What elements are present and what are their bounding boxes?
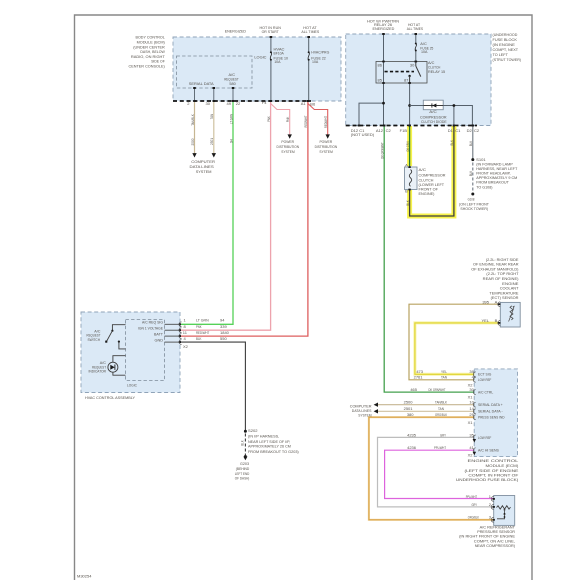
svg-text:ENERGIZED: ENERGIZED bbox=[225, 29, 246, 34]
svg-text:30: 30 bbox=[206, 101, 211, 106]
wire: HVAC internal stubs logic box to connector pins bbox=[165, 324, 181, 342]
sensor B2: A/C refrigerant pressure sensor box bbox=[494, 496, 515, 526]
pin squares on fuse block top edge bbox=[382, 33, 417, 35]
svg-text:(NOT USED): (NOT USED) bbox=[351, 132, 375, 137]
ground G203 symbol bbox=[243, 455, 247, 460]
relay K1: A/C clutch relay box bbox=[376, 62, 427, 84]
label: ENERGIZED bbox=[225, 29, 246, 34]
svg-text:PRESS SENS IND: PRESS SENS IND bbox=[478, 415, 505, 420]
diode D1 symbol bbox=[423, 103, 443, 107]
svg-text:GND: GND bbox=[155, 337, 164, 342]
svg-text:SERIAL DATA: SERIAL DATA bbox=[189, 81, 214, 86]
svg-text:35: 35 bbox=[469, 432, 474, 437]
ECT thermistor symbol bbox=[509, 306, 515, 322]
label: LOGIC (HVAC) bbox=[127, 383, 137, 388]
terminal wedges at ECM pins 35 and 41 bbox=[473, 439, 476, 455]
HVAC internal logic dashed box bbox=[126, 320, 165, 381]
svg-text:LOGIC: LOGIC bbox=[127, 383, 137, 388]
svg-text:LOW REF: LOW REF bbox=[478, 377, 492, 382]
svg-text:YEL: YEL bbox=[441, 369, 448, 374]
wire: HOT AT ALL TIMES feed through A/C fuse to relay pin 30 bbox=[415, 34, 417, 62]
svg-text:BLK: BLK bbox=[468, 171, 473, 177]
wire: BLK dashed S101 to G108 bbox=[472, 163, 474, 192]
svg-text:2501: 2501 bbox=[209, 137, 214, 145]
module U2: Engine Control Module (ECM) dashed box bbox=[474, 369, 517, 457]
svg-text:CENTER CONSOLE): CENTER CONSOLE) bbox=[129, 63, 166, 68]
label: A/C REQUEST 580 (BCM) bbox=[224, 72, 239, 86]
svg-text:S202: S202 bbox=[248, 428, 258, 433]
label: fuse F3 A/C FUSE 25 10A bbox=[420, 41, 434, 54]
label: fuse F2 HVAC/PRG FUSE 22 10A bbox=[311, 50, 329, 64]
svg-text:ALL TIMES: ALL TIMES bbox=[301, 29, 319, 34]
label: computer data lines system (ECM side) bbox=[350, 404, 372, 418]
pin squares on BCM logic box bottom bbox=[193, 87, 234, 89]
wire row labels: pressure sensor pins bbox=[466, 494, 492, 520]
pin names: HVAC right edge bbox=[138, 320, 163, 343]
svg-text:BLK: BLK bbox=[240, 440, 245, 446]
svg-text:SYSTEM: SYSTEM bbox=[196, 169, 212, 174]
svg-text:HVAC/PRG: HVAC/PRG bbox=[311, 50, 329, 55]
diode D1: A/C compressor clutch diode box bbox=[423, 100, 443, 110]
wire: YEL 473 ECT signal pin B to ECM pin 39 (pale casing) bbox=[415, 323, 499, 374]
label: power distribution system (PNK) bbox=[277, 139, 300, 154]
wire: TAN/BLK 2500 serial data + at ECM pin 10 bbox=[376, 404, 475, 406]
wire: BLK dashed S202 to G203 bbox=[244, 434, 246, 456]
pin names: ECM left edge bbox=[478, 372, 505, 453]
svg-text:2501: 2501 bbox=[404, 406, 414, 411]
svg-text:RED/WHT: RED/WHT bbox=[196, 330, 210, 335]
svg-text:B6: B6 bbox=[310, 101, 316, 106]
svg-text:GRY: GRY bbox=[440, 432, 446, 437]
wire: diode right to D2 pin with D1 branch bbox=[443, 104, 472, 125]
fuse F3: A/C FUSE 25 10A symbol bbox=[415, 43, 417, 52]
module FB1: Underhood Fuse Block dashed box bbox=[346, 34, 491, 126]
svg-text:PNK: PNK bbox=[285, 117, 290, 123]
svg-text:465: 465 bbox=[410, 387, 417, 392]
wire: ORG/BLK 380 pressure sensor 5v ECM pin 29 to sensor pin 3 bbox=[369, 417, 494, 520]
svg-text:OR START: OR START bbox=[262, 29, 280, 34]
pin squares on BCM bottom connector bbox=[193, 100, 309, 102]
label: HOT AT ALL TIMES (BCM) bbox=[301, 25, 319, 34]
svg-text:G108: G108 bbox=[468, 196, 475, 201]
svg-text:39: 39 bbox=[469, 369, 474, 374]
svg-text:X2: X2 bbox=[183, 344, 189, 349]
label: underhood fuse block name block bbox=[493, 32, 522, 62]
svg-text:A1: A1 bbox=[301, 101, 307, 106]
svg-text:29: 29 bbox=[469, 412, 474, 417]
svg-text:SWITCH: SWITCH bbox=[88, 337, 101, 342]
svg-text:BLK: BLK bbox=[449, 140, 454, 146]
wire: pin87 junction to diode left bbox=[410, 105, 424, 107]
BCM internal logic dashed box bbox=[177, 56, 253, 88]
wire: DK GRN/WHT 465 A/C request from fuse block A12 to ECM pin 30 bbox=[384, 126, 474, 393]
wire: BLK D2 to S101 splice bbox=[472, 126, 474, 160]
svg-text:ECT SIG: ECT SIG bbox=[478, 372, 491, 377]
wire: PNK branch to power distribution arrow bbox=[271, 104, 290, 135]
label: fuse F1 HVAC B FUSE 10A bbox=[274, 46, 289, 64]
arrow: serial data - to computer data lines (left) bbox=[374, 409, 378, 413]
arrow: power distribution (down) from RED/WHT bbox=[326, 134, 330, 138]
svg-text:94: 94 bbox=[228, 138, 233, 143]
svg-text:94: 94 bbox=[220, 318, 225, 323]
svg-text:30: 30 bbox=[410, 62, 415, 67]
svg-text:GRY: GRY bbox=[472, 502, 478, 507]
svg-text:TAN: TAN bbox=[438, 406, 444, 411]
svg-text:A/C: A/C bbox=[419, 167, 427, 172]
pin labels: fuse block bottom connector bbox=[351, 128, 480, 137]
component L1: A/C compressor clutch coil box bbox=[405, 167, 418, 190]
label: A/C refrigerant pressure sensor block bbox=[459, 524, 516, 548]
module U1: Body Control Module (BCM) dashed box bbox=[173, 37, 341, 101]
svg-text:C2: C2 bbox=[474, 128, 480, 133]
wire: PPL/WHT 4236 pressure signal ECM pin 41 to sensor pin 1 bbox=[385, 450, 494, 498]
svg-text:RELAY 15: RELAY 15 bbox=[428, 69, 446, 74]
svg-text:BATT: BATT bbox=[154, 331, 163, 336]
svg-text:49: 49 bbox=[227, 101, 232, 106]
svg-text:PPL/WHT: PPL/WHT bbox=[466, 494, 478, 499]
Underhood fuse block bottom connector row (heavy dashed) bbox=[346, 125, 477, 127]
arrow: computer data lines (down) from TAN/BLK bbox=[192, 153, 196, 157]
svg-text:SERIAL DATA -: SERIAL DATA - bbox=[478, 409, 503, 414]
svg-text:D2: D2 bbox=[467, 128, 473, 133]
junction at pin87/diode branch bbox=[408, 104, 411, 107]
relay coil heavy dashed line bbox=[385, 71, 415, 73]
splice S202 bbox=[244, 430, 247, 433]
svg-text:2500: 2500 bbox=[190, 138, 195, 146]
svg-text:A: A bbox=[495, 299, 498, 304]
svg-text:ENERGIZED: ENERGIZED bbox=[372, 26, 394, 31]
wire: YEL 473 ECT signal core bbox=[415, 323, 499, 374]
svg-text:87: 87 bbox=[404, 78, 409, 83]
label: ground G203 block bbox=[235, 461, 250, 481]
svg-text:D1: D1 bbox=[448, 128, 454, 133]
pin numbers: BCM bottom connector bbox=[187, 100, 316, 106]
svg-text:30: 30 bbox=[469, 387, 474, 392]
label: diode A/C COMPRESSOR CLUTCH DIODE bbox=[420, 109, 447, 124]
wire: RED/WHT 1840 battery feed BCM to HVAC pin 11 bbox=[180, 101, 308, 336]
svg-text:OF DASH): OF DASH) bbox=[235, 476, 250, 481]
svg-text:10: 10 bbox=[469, 400, 474, 405]
svg-text:10A: 10A bbox=[421, 49, 428, 54]
svg-text:LT GRN: LT GRN bbox=[196, 318, 209, 323]
label: ECT sensor name block bbox=[471, 257, 519, 300]
wire: relay pin 87 down to fuse block pin F1B bbox=[409, 83, 411, 126]
label: HVAC CONTROL ASSEMBLY bbox=[85, 395, 135, 400]
svg-text:473: 473 bbox=[416, 369, 423, 374]
svg-text:2500: 2500 bbox=[404, 400, 414, 405]
pin labels: clutch A and B bbox=[405, 162, 408, 193]
svg-text:X1: X1 bbox=[468, 420, 474, 425]
svg-text:HVAC CONTROL ASSEMBLY: HVAC CONTROL ASSEMBLY bbox=[85, 395, 135, 400]
svg-text:ALL TIMES: ALL TIMES bbox=[407, 26, 424, 31]
svg-text:FROM BREAKOUT TO G203): FROM BREAKOUT TO G203) bbox=[248, 449, 299, 454]
label: A/C request switch bbox=[87, 328, 101, 342]
ECT sensor pin arcs A and B bbox=[498, 302, 501, 326]
arrow: serial data + to computer data lines (left) bbox=[374, 403, 378, 407]
svg-text:PNK: PNK bbox=[266, 116, 271, 122]
pressure sensor internal symbol bbox=[497, 506, 511, 519]
wire: TAN/BLK 2500 serial data from BCM pin to computer data lines arrow bbox=[194, 101, 196, 154]
wire: PNK 339 ignition feed BCM to HVAC pin 8 bbox=[180, 101, 271, 330]
svg-text:10A: 10A bbox=[274, 59, 281, 64]
svg-text:LOW REF: LOW REF bbox=[478, 435, 492, 440]
wire: branch to pin D12 (not used) bbox=[359, 103, 384, 125]
svg-text:RED/WHT: RED/WHT bbox=[323, 116, 328, 128]
svg-text:86: 86 bbox=[378, 62, 383, 67]
svg-text:SYSTEM: SYSTEM bbox=[358, 412, 371, 417]
svg-text:85: 85 bbox=[378, 78, 383, 83]
wire: BLK 550 HVAC pin 4 ground to S202 bbox=[180, 342, 245, 430]
pin numbers: relay 86 30 85 87 bbox=[378, 62, 416, 82]
svg-text:380: 380 bbox=[407, 412, 414, 417]
svg-text:BLK: BLK bbox=[196, 336, 202, 341]
label: splice S202 block bbox=[248, 428, 299, 454]
svg-text:A12: A12 bbox=[376, 128, 384, 133]
svg-text:IGN 1 VOLTAGE: IGN 1 VOLTAGE bbox=[138, 326, 163, 331]
pin squares on relay box edges bbox=[382, 61, 417, 84]
svg-text:NEAR COMPRESSOR): NEAR COMPRESSOR) bbox=[475, 543, 516, 548]
svg-text:580: 580 bbox=[229, 81, 236, 86]
label: ground G108 block bbox=[459, 196, 489, 211]
svg-text:14: 14 bbox=[469, 406, 474, 411]
svg-text:F1B: F1B bbox=[400, 128, 408, 133]
HVAC connector pin arcs rows 1,8,11,4 bbox=[179, 322, 182, 345]
pressure sensor pin arcs 1,2,3 bbox=[491, 497, 495, 523]
svg-text:DK GRN/WHT: DK GRN/WHT bbox=[429, 387, 446, 392]
svg-text:A/C HI SENS: A/C HI SENS bbox=[478, 448, 499, 453]
pin labels: ECT A and B rows bbox=[481, 299, 497, 323]
label: HOT AT ALL TIMES (fuse block) bbox=[407, 22, 424, 31]
svg-text:ORG/BLK: ORG/BLK bbox=[435, 412, 447, 417]
label: HOT W/ PWRTRN RELAY 26 ENERGIZED bbox=[367, 18, 399, 31]
wire: TAN 2761 low ref ECT pin A to ECM pin 4 bbox=[409, 304, 499, 380]
svg-text:41: 41 bbox=[469, 445, 474, 450]
footer code bbox=[77, 574, 92, 579]
svg-text:X2: X2 bbox=[468, 452, 474, 457]
svg-text:395: 395 bbox=[482, 299, 489, 304]
svg-text:UNDERHOOD FUSE BLOCK): UNDERHOOD FUSE BLOCK) bbox=[456, 477, 519, 482]
svg-text:TAN: TAN bbox=[209, 114, 214, 120]
svg-text:ENGINE): ENGINE) bbox=[419, 191, 436, 196]
svg-text:4236: 4236 bbox=[407, 445, 417, 450]
svg-text:2761: 2761 bbox=[414, 375, 424, 380]
svg-text:DK GRN: DK GRN bbox=[405, 141, 410, 151]
wire: relay coil pin 86 to 85 internal bbox=[383, 62, 385, 84]
svg-text:(IN I/P HARNESS,: (IN I/P HARNESS, bbox=[248, 434, 279, 439]
svg-text:PPL/WHT: PPL/WHT bbox=[434, 445, 446, 450]
svg-text:RED/WHT: RED/WHT bbox=[303, 115, 308, 127]
arrow: power distribution (down) from PNK bbox=[288, 134, 292, 138]
label: HOT IN RUN OR START bbox=[260, 25, 281, 34]
wire: BCM internal stubs logic box to connector bbox=[195, 88, 234, 101]
wire: BLK clutch return pin B to fuse block pin D1 bbox=[410, 126, 454, 217]
svg-text:339: 339 bbox=[220, 324, 227, 329]
svg-text:DK GRN/WHT: DK GRN/WHT bbox=[380, 142, 385, 159]
svg-text:22: 22 bbox=[236, 101, 241, 106]
svg-text:F4: F4 bbox=[262, 100, 267, 105]
label: computer data lines system (BCM side) bbox=[190, 159, 216, 174]
svg-text:B: B bbox=[495, 318, 498, 323]
label: LOGIC (BCM) bbox=[254, 55, 266, 60]
svg-text:SERIAL DATA +: SERIAL DATA + bbox=[478, 402, 503, 407]
switch SW1: A/C request switch bbox=[105, 325, 125, 349]
fuse F2: HVAC/PRG FUSE 22 10A symbol bbox=[308, 51, 310, 61]
label: BCM name block bbox=[129, 35, 166, 69]
svg-text:TO G108): TO G108) bbox=[476, 185, 493, 190]
svg-text:LT GRN: LT GRN bbox=[228, 114, 233, 124]
arrow: computer data lines (down) from TAN bbox=[212, 153, 216, 157]
pin squares on BCM top edge bbox=[270, 36, 310, 38]
svg-text:C1: C1 bbox=[455, 128, 461, 133]
wire: relay pin 85 down to fuse block pin A12 bbox=[383, 83, 385, 126]
svg-text:SYSTEM: SYSTEM bbox=[281, 149, 294, 154]
svg-text:ORG/BLK: ORG/BLK bbox=[468, 515, 479, 520]
wire color labels: vertical rotated bbox=[190, 114, 473, 446]
svg-text:LOGIC: LOGIC bbox=[254, 55, 266, 60]
svg-text:550: 550 bbox=[220, 336, 227, 341]
svg-text:1840: 1840 bbox=[220, 330, 230, 335]
svg-text:A: A bbox=[405, 162, 408, 167]
ground G108 terminal dot bbox=[471, 193, 474, 196]
ECM connector pin arcs bbox=[473, 372, 475, 453]
label: power distribution system (RED/WHT) bbox=[315, 139, 338, 154]
svg-text:TAN: TAN bbox=[441, 375, 447, 380]
svg-text:BLK: BLK bbox=[405, 200, 410, 206]
label: SERIAL DATA (BCM) bbox=[189, 81, 214, 86]
junction at relay85/D12 branch bbox=[382, 102, 385, 105]
module A1: HVAC Control Assembly dashed box bbox=[81, 312, 180, 393]
wire: DK GRN clutch feed F1B to clutch pin A bbox=[409, 126, 411, 168]
wire: BCM fuse2 feed vertical (HOT AT ALL TIMES) bbox=[308, 37, 310, 101]
svg-text:TAN/BLK: TAN/BLK bbox=[190, 114, 195, 126]
sensor B1: ECT sensor box bbox=[500, 302, 520, 327]
pin squares on fuse block bottom connector bbox=[358, 125, 474, 127]
svg-text:PNK: PNK bbox=[196, 324, 202, 329]
highlight: yellow traced circuit through A/C compressor clutch bbox=[410, 126, 454, 216]
svg-text:CLUTCH DIODE: CLUTCH DIODE bbox=[421, 119, 447, 124]
wire: BCM fuse1 feed vertical (HOT IN RUN) bbox=[270, 37, 272, 101]
clutch L1 coil symbol bbox=[408, 166, 411, 190]
wire: TAN 2501 serial data from BCM pin to computer data lines arrow bbox=[213, 101, 215, 154]
label: splice S101 block bbox=[476, 157, 518, 190]
svg-text:A/C REQ SIG: A/C REQ SIG bbox=[142, 320, 163, 325]
svg-text:M30254: M30254 bbox=[77, 574, 92, 579]
indicator DS1: A/C request LED bbox=[108, 356, 126, 376]
wire: HOT W/PWRTRN feed to relay pin 86 bbox=[383, 34, 385, 62]
label: A/C request indicator bbox=[89, 360, 107, 374]
svg-text:4235: 4235 bbox=[407, 432, 417, 437]
svg-text:YEL: YEL bbox=[481, 318, 489, 323]
splice S101 bbox=[471, 158, 474, 161]
wire: RED/WHT branch to power distribution arrow bbox=[308, 104, 328, 135]
label: A/C compressor clutch block bbox=[419, 167, 446, 196]
label: relay K1 A/C CLUTCH RELAY 15 bbox=[428, 60, 446, 74]
svg-text:B: B bbox=[405, 189, 408, 194]
relay switch blade pin 30 to 87 bbox=[408, 62, 420, 84]
wire: TAN 2501 serial data - at ECM pin 14 bbox=[376, 410, 475, 412]
wire row labels: HVAC pins bbox=[183, 318, 230, 350]
svg-text:A/C CTRL: A/C CTRL bbox=[478, 390, 494, 395]
BCM bottom connector row (heavy dashed) bbox=[173, 100, 311, 102]
svg-text:TAN/BLK: TAN/BLK bbox=[435, 400, 447, 405]
wire row labels: ECM pins bbox=[404, 369, 475, 457]
svg-text:C2: C2 bbox=[386, 128, 392, 133]
svg-text:SYSTEM: SYSTEM bbox=[319, 149, 332, 154]
label: ECM name block bbox=[456, 458, 519, 482]
fuse F1: HVAC B FUSE 10A symbol bbox=[270, 51, 272, 61]
svg-text:SHOCK TOWER): SHOCK TOWER) bbox=[460, 206, 488, 211]
wire: LT GRN 94 A/C request signal BCM pin 22 to HVAC pin 1 bbox=[180, 101, 233, 324]
svg-text:BLK: BLK bbox=[468, 141, 473, 147]
svg-text:(STRUT TOWER): (STRUT TOWER) bbox=[493, 57, 522, 62]
svg-text:INDICATOR: INDICATOR bbox=[89, 369, 107, 374]
wire: GRY 4235 low ref ECM pin 35 to sensor pin 2 bbox=[378, 437, 494, 507]
page frame bbox=[75, 15, 533, 580]
svg-text:10A: 10A bbox=[312, 59, 319, 64]
